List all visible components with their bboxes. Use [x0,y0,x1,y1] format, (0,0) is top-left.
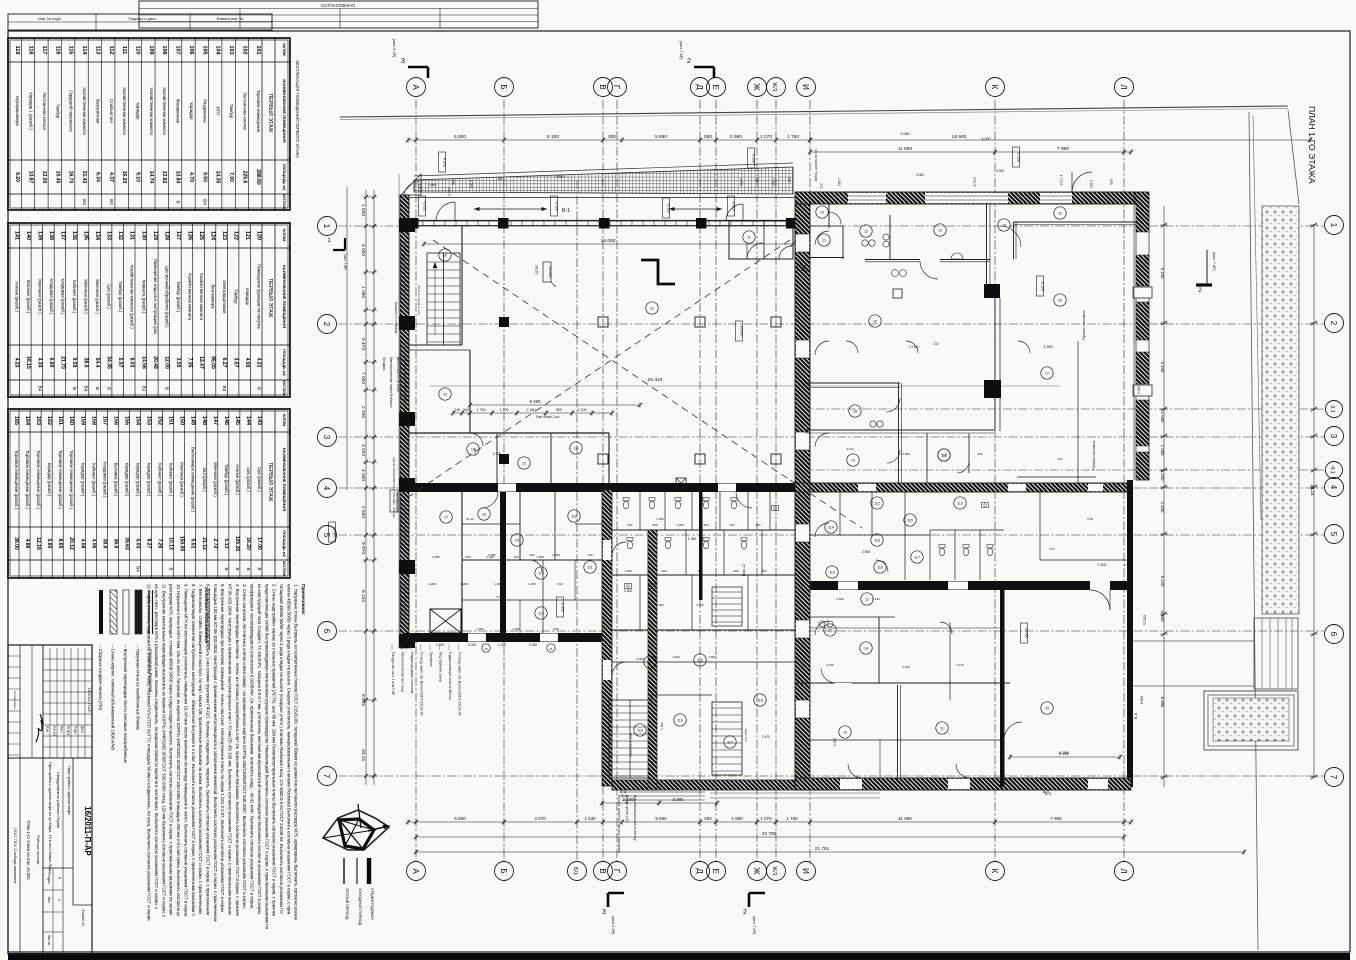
svg-text:Ателье (разоб.): Ателье (разоб.) [14,281,19,312]
dimension column left [347,187,377,785]
svg-text:Л: Л [1119,868,1128,873]
svg-text:7: 7 [322,774,331,779]
svg-text:5 57: 5 57 [1049,547,1055,551]
svg-text:7 980: 7 980 [1057,146,1069,152]
svg-text:Загрузочная: Загрузочная [95,99,100,124]
svg-text:Моечная (разоб.): Моечная (разоб.) [95,279,100,314]
svg-text:-0.150: -0.150 [752,153,756,163]
svg-text:НАИМЕНОВАНИЕ ПОМЕЩЕНИЯ: НАИМЕНОВАНИЕ ПОМЕЩЕНИЯ [282,448,287,511]
svg-text:12. Гифбр утеплить, гидроизол: 12. Гифбр утеплить, гидроизол из изменен… [147,584,152,921]
svg-text:Минераловатные плиты Rockwool: Минераловатные плиты Rockwool [389,357,393,408]
svg-text:Проёмы заложить: Проёмы заложить [1082,310,1086,340]
svg-text:1 600: 1 600 [536,555,544,559]
svg-text:А: А [411,868,420,874]
svg-text:900: 900 [553,627,558,631]
entrance gallery strip [408,198,795,222]
svg-text:7 980: 7 980 [1050,816,1062,821]
door arcs big wall gaps [482,492,752,508]
svg-text:Цех мучной обработки (разоб.): Цех мучной обработки (разоб.) [164,266,169,329]
svg-text:17: 17 [1045,372,1049,376]
svg-text:5 690: 5 690 [655,816,667,821]
svg-text:2 550: 2 550 [432,555,440,559]
svg-text:5.51: 5.51 [190,539,196,549]
svg-text:136: 136 [71,231,77,240]
svg-text:В4: В4 [37,386,42,392]
svg-text:105.26: 105.26 [234,536,240,552]
svg-text:раствором М75, кирпредел. стяж: раствором М75, кирпредел. стяжкой 4В500 … [169,584,174,915]
old building K wall and mid rooms [805,298,1001,483]
svg-text:Моечная (разоб.): Моечная (разоб.) [37,279,42,314]
site boundary line [340,106,1288,117]
svg-text:54.4: 54.4 [94,358,100,368]
svg-text:16/2011-П-АР: 16/2011-П-АР [87,687,92,712]
svg-text:4.37: 4.37 [108,172,114,182]
svg-text:1 200: 1 200 [512,627,520,631]
section marks top [392,39,714,78]
svg-text:В1: В1 [141,386,146,392]
svg-text:1 089: 1 089 [624,569,632,573]
svg-text:2 830: 2 830 [1160,502,1165,513]
svg-text:38.00: 38.00 [13,537,19,550]
svg-text:900: 900 [463,408,469,412]
svg-text:7.26: 7.26 [157,539,163,549]
svg-text:Е: Е [711,84,720,89]
title block project name cells [43,758,73,954]
svg-text:152: 152 [157,416,163,425]
section mark left 1 [327,238,347,270]
svg-text:7.00: 7.00 [228,172,234,182]
svg-text:И: И [801,868,810,874]
svg-text:1 200: 1 200 [672,655,680,659]
svg-text:10. Наружные стены Б.МГН Ком.: 10. Наружные стены Б.МГН Ком. 10ь по экс… [176,584,181,916]
svg-text:Подп.: Подп. [74,726,78,735]
svg-text:39.63: 39.63 [123,537,129,550]
axis Б wall below hall [500,492,506,635]
svg-text:158: 158 [90,416,96,425]
middle small rooms below hall [430,490,602,633]
svg-text:1 070: 1 070 [760,816,772,821]
svg-text:4 000: 4 000 [982,137,991,141]
leader texts under middle bottom wall [617,795,637,853]
svg-text:34.35: 34.35 [106,356,112,369]
svg-text:4.21: 4.21 [256,358,262,368]
svg-text:Зал (разоб.): Зал (разоб.) [202,467,207,492]
svg-text:112: 112 [108,46,114,55]
svg-text:4: 4 [322,486,331,491]
svg-text:95.00: 95.00 [210,356,216,369]
svg-text:№ПОМ.: №ПОМ. [282,414,286,427]
svg-text:2 300: 2 300 [360,406,366,418]
svg-text:2 471: 2 471 [846,447,854,451]
svg-text:Б/1: Б/1 [572,867,578,875]
svg-text:4 860: 4 860 [556,175,564,179]
svg-text:Ателье (разоб.): Ателье (разоб.) [235,464,240,495]
svg-text:500: 500 [787,177,791,183]
svg-text:В4: В4 [84,386,89,392]
svg-text:Листов: Листов [47,935,51,946]
door arcs various [470,231,1030,778]
svg-text:Е: Е [711,868,720,873]
svg-text:6: 6 [1329,632,1338,637]
svg-text:В: В [95,387,100,390]
svg-text:147: 147 [212,416,218,425]
existing building stippled rect [1204,691,1298,750]
svg-text:2: 2 [322,322,331,327]
svg-text:4.34: 4.34 [36,358,42,368]
extra partitions lower left wing [462,517,602,633]
existing building stipple strip [1262,206,1299,614]
svg-text:коэффициент теплопроводности у: коэффициент теплопроводности утеплителя … [250,584,255,909]
svg-text:300: 300 [608,134,616,140]
svg-text:900: 900 [755,177,759,183]
svg-text:Коридор 1 (разоб.): Коридор 1 (разоб.) [29,92,34,130]
svg-text:ПЛОЩАДЬ м2: ПЛОЩАДЬ м2 [282,349,286,376]
svg-text:1 900: 1 900 [708,655,716,659]
svg-text:Цех (разоб.): Цех (разоб.) [107,284,112,309]
wall: middle block left vertical hatched [602,490,612,786]
svg-text:Гл.вход навес см. Волна ГОСТ 2: Гл.вход навес см. Волна ГОСТ 23120-78 [458,652,462,716]
svg-text:460: 460 [761,569,766,573]
title block plan name and firm cells [13,820,40,884]
title block doc number cell [73,758,92,927]
annotation texts scattered [400,132,1149,794]
svg-text:Коридор: Коридор [189,103,194,121]
svg-text:1 772.5: 1 772.5 [1059,175,1063,186]
svg-text:1 760: 1 760 [787,134,799,140]
svg-text:из конструкций типа Сэндвич, Т: из конструкций типа Сэндвич, ТУ ИКЛАР1, … [257,584,262,915]
svg-text:А: А [411,84,420,90]
svg-text:Хозяйственная комната: Хозяйственная комната [162,87,167,135]
svg-text:Инв. № подл.: Инв. № подл. [38,17,62,21]
legend labels [98,645,153,764]
svg-text:1 220: 1 220 [1124,563,1133,567]
svg-text:Мусорокамера: Мусорокамера [15,96,20,126]
svg-text:13.87: 13.87 [28,171,34,184]
boundary line right vertical [1249,112,1258,950]
svg-text:– Внутренние перегородки плит: – Внутренние перегородки плиты гипсовые … [123,645,128,764]
svg-text:132: 132 [117,231,123,240]
svg-text:2 980: 2 980 [730,134,742,140]
svg-text:34.15: 34.15 [360,749,366,761]
axis bubbles left column [318,217,337,786]
svg-text:Хозяйственная комната: Хозяйственная комната [199,273,204,321]
svg-text:38.8: 38.8 [101,539,107,549]
svg-text:Пристройка к зданию кафе: Пристройка к зданию кафе [67,766,72,815]
dimension row bottom small (2100/3380) [602,802,717,804]
svg-text:4 000: 4 000 [360,469,366,481]
svg-text:Хозяйственная комната: Хозяйственная комната [82,87,87,135]
svg-text:КАТ.ПОЖ.: КАТ.ПОЖ. [282,194,286,210]
table: экспликация помещений 2 [8,223,290,397]
svg-text:1 600: 1 600 [360,204,366,216]
svg-text:3: 3 [322,435,331,440]
svg-text:Помещение отдыха и экстракции: Помещение отдыха и экстракции (раз [153,259,158,335]
svg-text:Цех (разоб.): Цех (разоб.) [246,467,251,492]
svg-text:126: 126 [186,231,192,240]
svg-text:Формат А1: Формат А1 [81,909,85,926]
svg-text:127: 127 [175,231,181,240]
svg-text:1 200: 1 200 [500,408,509,412]
svg-text:Хозяйственная комната: Хозяйственная комната [149,87,154,135]
svg-text:3: 3 [1329,434,1338,439]
extra right building partitions [810,341,1127,778]
svg-text:Рабочие чертежи: Рабочие чертежи [36,836,40,865]
svg-text:155: 155 [123,416,129,425]
svg-text:12: 12 [865,598,869,602]
svg-text:20.12: 20.12 [68,537,74,550]
dimension row bottom A [408,821,1131,823]
svg-text:1: 1 [322,224,331,229]
svg-text:Б: Б [499,84,508,89]
svg-text:Коридор: Коридор [136,103,141,121]
svg-text:12 000: 12 000 [1143,615,1147,625]
svg-text:151: 151 [168,416,174,425]
svg-text:ПЕРВЫЙ ЭТАЖ: ПЕРВЫЙ ЭТАЖ [267,279,275,318]
svg-text:145: 145 [234,416,240,425]
svg-text:130: 130 [140,231,146,240]
svg-text:3: 3 [602,909,606,916]
wall: left exterior hatched [399,195,415,648]
svg-text:Коридор (разоб.): Коридор (разоб.) [80,463,85,497]
svg-text:16.20: 16.20 [245,537,251,550]
svg-text:14: 14 [1002,224,1006,228]
svg-text:2 470: 2 470 [956,663,964,667]
svg-text:В: В [598,84,607,89]
svg-text:4.86: 4.86 [24,539,30,549]
svg-text:±0.000: ±0.000 [548,267,552,278]
svg-text:Гидроизоляция низа не Волна: Гидроизоляция низа не Волна [448,652,452,700]
svg-text:Кол.уч.: Кол.уч. [53,726,57,737]
axis bubbles bottom row [407,862,1134,881]
svg-text:3 35: 3 35 [1087,517,1093,521]
svg-text:Моечная (разоб.): Моечная (разоб.) [213,462,218,497]
svg-text:Д: Д [695,84,704,90]
hall step symbol [641,260,675,284]
svg-text:-0.150: -0.150 [555,201,559,211]
svg-text:КП 95-103-2004. Конструкции с: КП 95-103-2004. Конструкции с применение… [228,584,233,915]
title block signature rows [8,656,43,755]
svg-text:Козырёк со стойками: Козырёк со стойками [394,302,398,333]
svg-text:Кабинет (разоб.): Кабинет (разоб.) [72,280,77,314]
svg-text:2: 2 [743,909,747,916]
dimension row top A [408,139,810,141]
hall level mark [543,262,556,287]
svg-text:133: 133 [106,231,112,240]
svg-text:18: 18 [853,410,857,414]
svg-text:3 000: 3 000 [529,643,537,647]
svg-text:Согласовано: Согласовано [13,691,17,709]
svg-text:128: 128 [163,231,169,240]
svg-text:159: 159 [79,416,85,425]
leader note columns below left wing [391,644,462,716]
svg-text:Л: Л [1119,84,1128,89]
svg-text:21.12: 21.12 [466,517,474,521]
wall face outline lines [409,192,1140,790]
svg-text:161: 161 [57,416,63,425]
svg-text:5 500: 5 500 [454,816,466,821]
svg-text:Моечная (разоб.): Моечная (разоб.) [180,462,185,497]
svg-text:900: 900 [755,523,760,527]
svg-text:В4: В4 [136,566,141,572]
svg-text:610: 610 [557,582,562,586]
svg-text:11. Внутренние капитальные пер: 11. Внутренние капитальные перегородки в… [161,584,166,918]
title block frame [8,645,92,954]
svg-text:14.56: 14.56 [140,356,146,369]
svg-text:1 200: 1 200 [1137,386,1141,394]
svg-text:6.80: 6.80 [48,358,54,368]
svg-text:16 000: 16 000 [601,238,616,244]
svg-text:Д: Д [695,868,704,874]
svg-text:План 1-го этажа на отм. ±0.000: План 1-го этажа на отм. ±0.000 [26,820,31,880]
svg-text:122: 122 [233,231,239,240]
svg-text:7: 7 [1329,775,1338,780]
wc cluster middle block [612,492,795,662]
svg-text:1 250: 1 250 [1160,470,1165,481]
svg-text:9 970: 9 970 [360,542,366,554]
svg-text:9.20: 9.20 [14,172,20,182]
level marks small boxes [329,147,1045,643]
svg-text:3.1: 3.1 [1329,405,1335,413]
svg-text:480: 480 [497,177,503,181]
svg-text:3: 3 [57,899,61,901]
svg-text:100: 100 [513,555,518,559]
svg-text:129: 129 [152,231,158,240]
svg-text:3 080: 3 080 [901,132,910,136]
svg-text:110: 110 [135,46,141,55]
svg-text:8 885: 8 885 [360,694,366,706]
svg-text:1 530: 1 530 [584,816,596,821]
svg-text:1 360: 1 360 [688,537,696,541]
svg-text:17: 17 [444,516,448,520]
svg-text:– Стены кирпич. глиняный обык: – Стены кирпич. глиняный обыкновенный 18… [111,645,116,751]
svg-text:111: 111 [941,454,946,458]
svg-text:5 690: 5 690 [655,134,667,140]
svg-text:160: 160 [68,416,74,425]
svg-text:380: 380 [451,179,455,185]
svg-text:19 840: 19 840 [952,134,967,140]
svg-text:119: 119 [829,571,835,575]
svg-text:118: 118 [28,46,34,55]
svg-text:НАИМЕНОВАНИЕ ПОМЕЩЕНИЯ: НАИМЕНОВАНИЕ ПОМЕЩЕНИЯ [282,79,287,142]
svg-text:10.40: 10.40 [54,171,60,184]
svg-text:В: В [257,567,262,570]
svg-text:В-4: В-4 [1045,791,1052,796]
svg-text:10: 10 [843,731,847,735]
svg-text:1 750: 1 750 [477,408,486,412]
svg-text:2 800: 2 800 [624,589,633,593]
grid axes horizontal dash-dot lines [338,226,1324,776]
svg-text:5 440: 5 440 [1160,362,1165,373]
svg-text:43 790: 43 790 [762,831,777,837]
svg-text:17.00: 17.00 [256,537,262,550]
svg-text:2.72: 2.72 [212,539,218,549]
dimension row bottom B (43 790) [416,836,1124,838]
extra tiny dims top band [417,169,1113,196]
svg-text:Тамбур (разоб.): Тамбур (разоб.) [224,464,229,496]
svg-text:154: 154 [135,416,141,425]
stair block top-left [427,253,460,345]
svg-text:900: 900 [652,523,657,527]
svg-text:225.6: 225.6 [241,171,247,184]
svg-text:6 650: 6 650 [836,597,844,601]
svg-text:900: 900 [627,523,632,527]
svg-text:165: 165 [13,416,19,425]
svg-text:164: 164 [24,416,30,425]
svg-text:Тамбур (разоб.): Тамбур (разоб.) [118,281,123,313]
wall: left wing bottom [405,633,612,642]
svg-text:4.90: 4.90 [244,358,250,368]
svg-text:Тамбур (разоб.): Тамбур (разоб.) [176,281,181,313]
svg-text:600: 600 [977,452,982,456]
svg-text:19: 19 [515,539,519,543]
svg-text:В: В [176,200,181,203]
svg-text:16: 16 [873,320,877,324]
svg-text:1 900: 1 900 [833,738,837,746]
svg-text:3 380: 3 380 [673,797,685,802]
svg-text:141: 141 [13,231,19,240]
svg-text:В: В [257,387,262,390]
svg-text:5 310: 5 310 [872,597,880,601]
svg-text:2 100: 2 100 [578,408,587,412]
hall columns row y322 [499,317,781,327]
svg-text:226: 226 [1057,457,1062,461]
svg-text:Торговое помещение (разоб.): Торговое помещение (разоб.) [58,450,63,510]
svg-text:900: 900 [703,523,708,527]
svg-text:±0.000: ±0.000 [1025,628,1029,639]
svg-text:18: 18 [482,513,486,517]
svg-text:ПЕРВЫЙ ЭТАЖ: ПЕРВЫЙ ЭТАЖ [267,94,275,133]
svg-text:1: 1 [1329,223,1338,228]
svg-text:115: 115 [907,519,913,523]
svg-text:21.12: 21.12 [201,537,207,550]
extra window lines left wall [399,174,405,648]
svg-text:750: 750 [729,523,734,527]
terrace left ramp [401,174,421,195]
svg-text:(лист 7 АР): (лист 7 АР) [343,254,347,271]
svg-text:Под бурение зазор: Под бурение зазор [439,652,443,682]
svg-text:ВЕНТИ БАТТС 90 кг/м3: ВЕНТИ БАТТС 90 кг/м3 [396,357,400,392]
svg-text:11: 11 [940,727,944,731]
svg-text:(лист 8 АР): (лист 8 АР) [392,39,396,58]
svg-text:2 180: 2 180 [527,408,536,412]
wall: right exterior upper with piers [1133,192,1152,480]
svg-text:31.43: 31.43 [81,171,87,184]
svg-text:Венткамера: Венткамера [211,284,216,309]
svg-text:Лест. Л-1 (сущ. 1 шт.): Лест. Л-1 (сущ. 1 шт.) [417,285,421,314]
svg-text:135: 135 [83,231,89,240]
svg-text:Лест. Л-3: Лест. Л-3 [744,729,748,742]
svg-text:В: В [72,387,77,390]
svg-text:Торговое помещение (разоб.): Торговое помещение (разоб.) [69,450,74,510]
dim texts y585 left wing [428,582,563,586]
svg-text:1 060: 1 060 [473,448,477,456]
svg-text:117: 117 [914,556,920,560]
svg-text:Тамбур: Тамбур [229,104,234,119]
svg-text:13: 13 [828,629,832,633]
svg-text:137: 137 [59,231,65,240]
svg-text:20: 20 [484,647,488,651]
dim texts y558 left wing [432,555,544,559]
svg-text:9.59: 9.59 [71,358,77,368]
svg-text:Ж: Ж [752,83,761,91]
svg-text:1 200: 1 200 [656,517,664,521]
svg-text:Торговое помещение (разоб.): Торговое помещение (разоб.) [36,450,41,510]
svg-text:12.00: 12.00 [163,356,169,369]
boundary slant to stipple strip [1288,110,1299,204]
svg-text:101: 101 [255,46,261,55]
svg-text:9. Помещение МГН по экспликаци: 9. Помещение МГН по экспликации утеплите… [183,584,188,917]
svg-text:116: 116 [54,46,60,55]
